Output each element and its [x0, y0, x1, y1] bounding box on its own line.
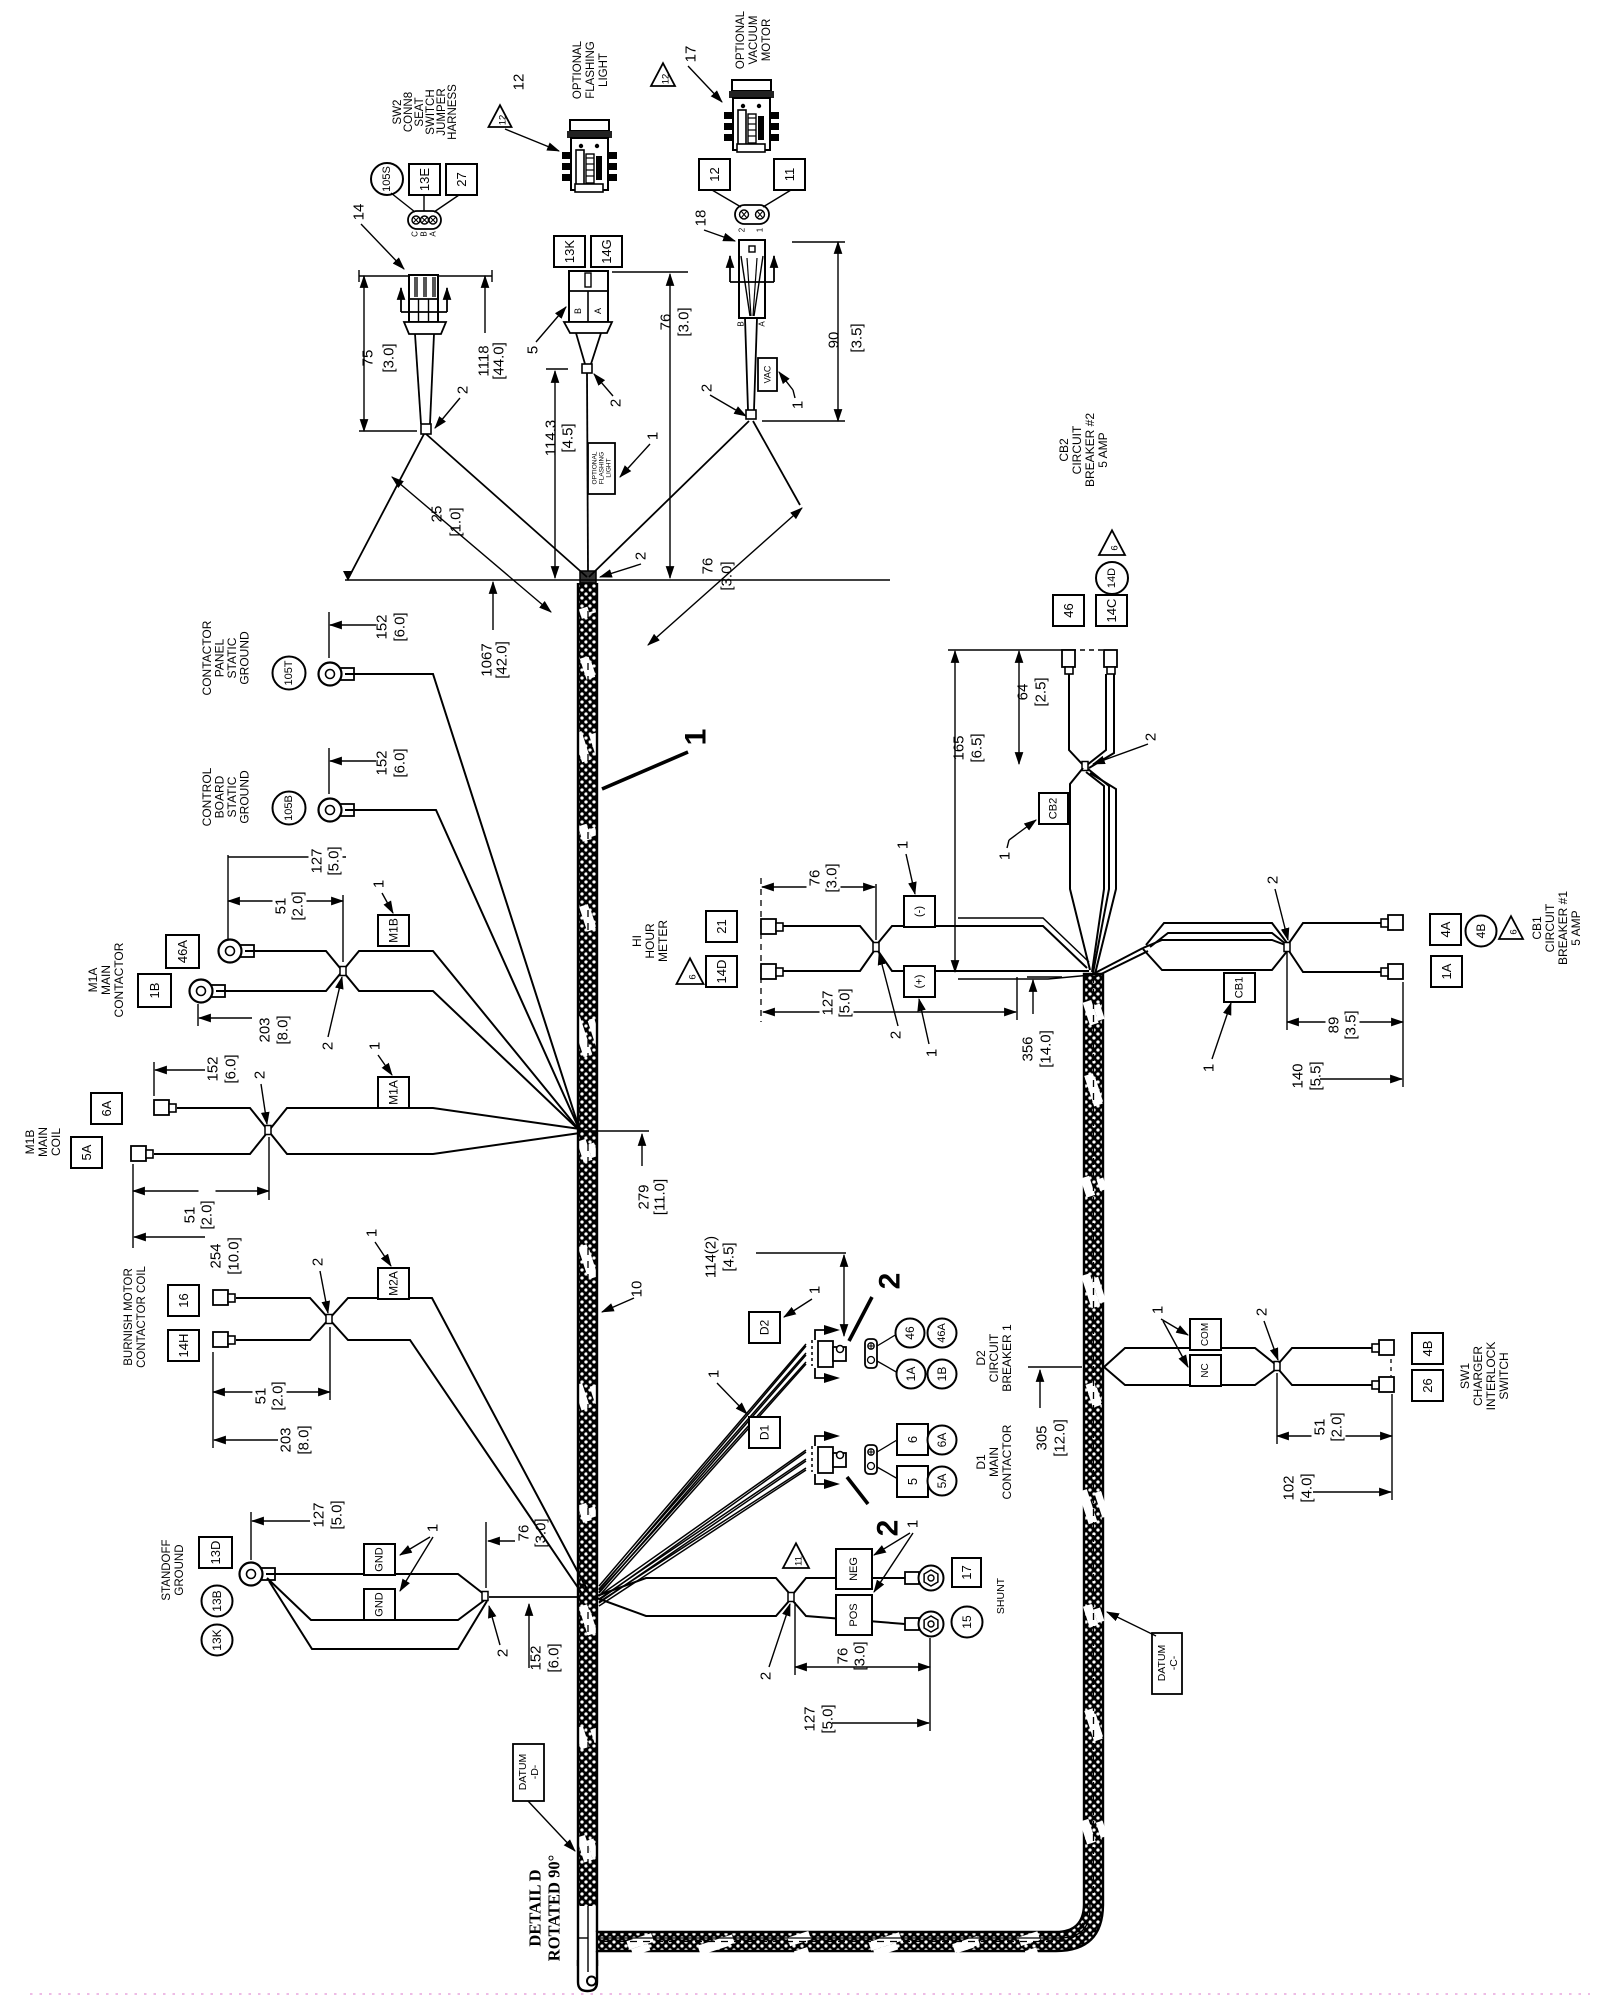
svg-text:2: 2	[495, 1649, 512, 1657]
svg-text:CIRCUIT: CIRCUIT	[1070, 425, 1084, 474]
svg-text:51: 51	[253, 1388, 270, 1405]
svg-text:6A: 6A	[935, 1433, 949, 1448]
svg-text:M1A: M1A	[86, 968, 100, 993]
svg-text:(-): (-)	[914, 906, 926, 917]
svg-text:[2.0]: [2.0]	[1329, 1412, 1346, 1441]
svg-text:165: 165	[951, 735, 968, 760]
svg-text:152: 152	[374, 614, 391, 639]
svg-text:COM: COM	[1200, 1323, 1211, 1346]
svg-text:[3.0]: [3.0]	[676, 307, 693, 336]
svg-text:SHUNT: SHUNT	[995, 1577, 1007, 1614]
svg-text:76: 76	[516, 1525, 533, 1542]
svg-text:6A: 6A	[99, 1100, 114, 1116]
svg-text:51: 51	[182, 1207, 199, 1224]
svg-text:1B: 1B	[147, 983, 162, 999]
svg-text:4B: 4B	[1474, 924, 1488, 939]
svg-text:[3.0]: [3.0]	[824, 863, 841, 892]
svg-text:CIRCUIT: CIRCUIT	[1543, 903, 1557, 952]
svg-text:BURNISH MOTOR: BURNISH MOTOR	[123, 1268, 135, 1366]
svg-text:114(2): 114(2)	[703, 1236, 720, 1278]
svg-text:GND: GND	[374, 1592, 386, 1617]
svg-text:127: 127	[820, 990, 837, 1015]
svg-text:89: 89	[1326, 1017, 1343, 1034]
svg-text:LIGHT: LIGHT	[606, 458, 613, 477]
svg-text:114.3: 114.3	[543, 420, 560, 456]
svg-text:HARNESS: HARNESS	[447, 84, 459, 140]
svg-text:2: 2	[252, 1071, 269, 1079]
svg-text:105B: 105B	[283, 795, 295, 821]
svg-text:OPTIONAL: OPTIONAL	[735, 10, 747, 69]
svg-text:[12.0]: [12.0]	[1052, 1419, 1069, 1457]
svg-text:SW1: SW1	[1458, 1363, 1472, 1389]
svg-text:11: 11	[794, 1556, 805, 1566]
svg-text:MAIN: MAIN	[99, 965, 113, 995]
svg-text:2: 2	[872, 1520, 905, 1537]
svg-text:1: 1	[1150, 1306, 1167, 1314]
svg-text:[8.0]: [8.0]	[275, 1015, 292, 1044]
svg-text:1A: 1A	[904, 1367, 918, 1382]
svg-text:ROTATED 90°: ROTATED 90°	[545, 1855, 564, 1961]
svg-text:102: 102	[1281, 1475, 1298, 1500]
svg-text:5: 5	[905, 1478, 920, 1485]
svg-text:2: 2	[633, 552, 650, 560]
svg-text:CONTACTOR: CONTACTOR	[1000, 1424, 1014, 1499]
svg-text:1: 1	[425, 1524, 442, 1532]
svg-text:18: 18	[693, 210, 710, 227]
svg-text:BREAKER #2: BREAKER #2	[1083, 413, 1097, 487]
svg-text:[2.0]: [2.0]	[199, 1200, 216, 1229]
svg-text:14D: 14D	[1106, 568, 1118, 588]
svg-text:2: 2	[699, 384, 716, 392]
svg-text:11: 11	[782, 168, 797, 182]
svg-text:25: 25	[429, 506, 446, 523]
svg-text:B: B	[420, 231, 429, 236]
svg-text:13E: 13E	[417, 168, 432, 191]
svg-text:-D-: -D-	[529, 1764, 541, 1779]
svg-text:1: 1	[790, 401, 807, 409]
svg-text:26: 26	[1420, 1378, 1435, 1392]
svg-text:-C-: -C-	[1168, 1655, 1180, 1670]
svg-text:GND: GND	[374, 1547, 386, 1572]
svg-text:12: 12	[498, 115, 509, 126]
svg-text:M2A: M2A	[387, 1271, 401, 1296]
svg-text:12: 12	[707, 167, 722, 181]
svg-text:2: 2	[1143, 733, 1160, 741]
svg-text:[11.0]: [11.0]	[652, 1179, 669, 1215]
svg-text:356: 356	[1020, 1036, 1037, 1061]
svg-text:75: 75	[360, 350, 377, 367]
svg-text:D1: D1	[974, 1454, 988, 1470]
svg-text:13D: 13D	[208, 1541, 223, 1565]
svg-text:21: 21	[714, 919, 729, 933]
svg-text:[3.0]: [3.0]	[533, 1518, 550, 1547]
svg-text:1: 1	[645, 432, 662, 440]
svg-text:METER: METER	[656, 920, 670, 962]
svg-text:[44.0]: [44.0]	[491, 342, 508, 380]
svg-text:OPTIONAL: OPTIONAL	[572, 40, 584, 99]
svg-text:[5.0]: [5.0]	[329, 1500, 346, 1529]
svg-text:CB1: CB1	[1530, 916, 1544, 940]
svg-text:5A: 5A	[79, 1144, 94, 1160]
svg-text:NC: NC	[1200, 1363, 1211, 1377]
svg-text:[6.0]: [6.0]	[392, 748, 409, 777]
svg-text:27: 27	[454, 172, 469, 186]
svg-text:STANDOFF: STANDOFF	[161, 1539, 173, 1600]
svg-text:203: 203	[278, 1427, 295, 1452]
svg-text:14: 14	[351, 204, 368, 221]
svg-text:HI: HI	[630, 935, 644, 947]
svg-text:A: A	[429, 231, 438, 237]
svg-text:A: A	[593, 308, 603, 314]
svg-text:SWITCH: SWITCH	[1497, 1352, 1511, 1399]
svg-text:12: 12	[661, 74, 672, 85]
svg-text:1: 1	[924, 1049, 941, 1057]
svg-text:2: 2	[455, 386, 472, 394]
svg-text:17: 17	[683, 46, 700, 63]
svg-text:[3.0]: [3.0]	[852, 1641, 869, 1670]
svg-text:6: 6	[905, 1436, 920, 1443]
svg-text:NEG: NEG	[848, 1557, 860, 1581]
svg-text:CONTACTOR: CONTACTOR	[112, 942, 126, 1017]
svg-text:CONTACTOR COIL: CONTACTOR COIL	[136, 1265, 148, 1367]
svg-text:[5.0]: [5.0]	[326, 846, 343, 875]
svg-text:90: 90	[826, 332, 843, 349]
svg-text:FLASHING: FLASHING	[585, 41, 597, 99]
svg-text:76: 76	[700, 558, 717, 575]
svg-text:CHARGER: CHARGER	[1471, 1346, 1485, 1406]
svg-text:[4.0]: [4.0]	[1299, 1473, 1316, 1502]
svg-text:1: 1	[364, 1229, 381, 1237]
svg-text:46: 46	[1061, 603, 1076, 617]
svg-text:127: 127	[311, 1502, 328, 1527]
svg-text:14G: 14G	[599, 239, 614, 264]
svg-text:152: 152	[528, 1645, 545, 1670]
svg-text:[3.5]: [3.5]	[1343, 1010, 1360, 1039]
svg-text:51: 51	[273, 898, 290, 915]
svg-text:LIGHT: LIGHT	[598, 53, 610, 87]
svg-text:5: 5	[525, 346, 542, 354]
svg-text:127: 127	[309, 848, 326, 873]
svg-text:[5.0]: [5.0]	[820, 1704, 837, 1733]
svg-text:[5.0]: [5.0]	[837, 988, 854, 1017]
svg-text:1B: 1B	[935, 1367, 949, 1382]
svg-text:2: 2	[310, 1258, 327, 1266]
svg-text:1: 1	[756, 227, 765, 232]
svg-text:MAIN: MAIN	[987, 1447, 1001, 1477]
svg-text:10: 10	[629, 1281, 646, 1298]
svg-text:C: C	[411, 231, 420, 237]
svg-text:B: B	[573, 308, 583, 314]
svg-text:2: 2	[738, 227, 747, 232]
svg-text:1: 1	[807, 1286, 824, 1294]
svg-text:[6.5]: [6.5]	[969, 733, 986, 762]
svg-text:D1: D1	[758, 1425, 772, 1441]
svg-text:46A: 46A	[936, 1323, 948, 1343]
svg-text:2: 2	[758, 1672, 775, 1680]
svg-text:CB1: CB1	[1234, 977, 1246, 998]
svg-text:M1B: M1B	[23, 1130, 37, 1155]
svg-text:1: 1	[680, 729, 713, 746]
svg-text:152: 152	[374, 750, 391, 775]
svg-text:13K: 13K	[562, 240, 577, 263]
svg-text:105T: 105T	[283, 660, 295, 685]
svg-text:[6.0]: [6.0]	[546, 1643, 563, 1672]
svg-text:A: A	[758, 321, 767, 327]
svg-text:14H: 14H	[176, 1334, 191, 1358]
svg-text:BREAKER 1: BREAKER 1	[1000, 1324, 1014, 1392]
svg-text:127: 127	[802, 1706, 819, 1731]
svg-text:DATUM: DATUM	[1156, 1645, 1168, 1682]
svg-text:1: 1	[997, 852, 1014, 860]
svg-text:GROUND: GROUND	[174, 1544, 186, 1595]
svg-text:D2: D2	[758, 1320, 772, 1336]
svg-text:COIL: COIL	[49, 1128, 63, 1156]
svg-text:64: 64	[1015, 684, 1032, 701]
svg-text:2: 2	[320, 1042, 337, 1050]
svg-text:INTERLOCK: INTERLOCK	[1484, 1342, 1498, 1411]
svg-text:76: 76	[807, 870, 824, 887]
svg-text:CB2: CB2	[1057, 438, 1071, 462]
svg-text:76: 76	[658, 314, 675, 331]
svg-text:105S: 105S	[381, 166, 393, 192]
svg-text:51: 51	[1312, 1419, 1329, 1436]
svg-text:14C: 14C	[1104, 599, 1119, 623]
svg-text:[6.0]: [6.0]	[223, 1054, 240, 1083]
svg-text:CB2: CB2	[1048, 798, 1060, 819]
svg-text:1A: 1A	[1439, 963, 1454, 979]
svg-text:[3.5]: [3.5]	[849, 323, 866, 352]
svg-text:305: 305	[1034, 1425, 1051, 1450]
svg-text:1: 1	[895, 841, 912, 849]
svg-text:5 AMP: 5 AMP	[1096, 432, 1110, 467]
svg-text:[4.5]: [4.5]	[560, 423, 577, 452]
svg-text:16: 16	[176, 1293, 191, 1307]
svg-text:[3.0]: [3.0]	[381, 343, 398, 372]
svg-text:1: 1	[371, 880, 388, 888]
svg-text:76: 76	[835, 1648, 852, 1665]
svg-text:DETAIL D: DETAIL D	[526, 1869, 545, 1946]
svg-text:VACUUM: VACUUM	[748, 16, 760, 65]
svg-text:2: 2	[888, 1031, 905, 1039]
svg-text:OPTIONAL: OPTIONAL	[592, 451, 599, 484]
svg-text:46A: 46A	[175, 940, 190, 963]
svg-text:DATUM: DATUM	[517, 1754, 529, 1791]
svg-text:4A: 4A	[1438, 921, 1453, 937]
svg-text:MOTOR: MOTOR	[761, 19, 773, 62]
svg-text:(+): (+)	[914, 975, 926, 989]
svg-text:1: 1	[706, 1370, 723, 1378]
svg-text:[14.0]: [14.0]	[1038, 1030, 1055, 1068]
svg-text:12: 12	[511, 74, 528, 91]
svg-text:15: 15	[960, 1615, 974, 1629]
svg-text:B: B	[737, 321, 746, 326]
svg-text:5A: 5A	[935, 1474, 949, 1489]
svg-text:M1B: M1B	[387, 918, 401, 943]
svg-text:MAIN: MAIN	[36, 1127, 50, 1157]
svg-text:14D: 14D	[714, 960, 729, 984]
svg-text:1: 1	[1201, 1064, 1218, 1072]
svg-text:279: 279	[636, 1184, 653, 1209]
svg-text:6: 6	[688, 974, 699, 979]
svg-text:HOUR: HOUR	[643, 923, 657, 959]
svg-text:152: 152	[205, 1056, 222, 1081]
svg-text:2: 2	[608, 399, 625, 407]
svg-text:[1.0]: [1.0]	[448, 507, 465, 536]
svg-text:POS: POS	[848, 1603, 860, 1626]
svg-text:254: 254	[208, 1243, 225, 1268]
svg-text:GROUND: GROUND	[238, 770, 252, 824]
svg-text:5 AMP: 5 AMP	[1569, 910, 1583, 945]
svg-text:2: 2	[874, 1273, 907, 1290]
svg-text:BREAKER #1: BREAKER #1	[1556, 891, 1570, 965]
svg-text:[10.0]: [10.0]	[226, 1237, 243, 1275]
svg-text:[8.0]: [8.0]	[296, 1425, 313, 1454]
svg-text:13B: 13B	[210, 1590, 224, 1611]
svg-text:[6.0]: [6.0]	[392, 612, 409, 641]
svg-text:M1A: M1A	[387, 1080, 401, 1105]
svg-text:[42.0]: [42.0]	[494, 641, 511, 679]
svg-text:GROUND: GROUND	[238, 631, 252, 685]
svg-text:2: 2	[1254, 1308, 1271, 1316]
svg-text:6: 6	[1110, 545, 1121, 550]
svg-text:203: 203	[257, 1017, 274, 1042]
svg-text:1: 1	[367, 1042, 384, 1050]
svg-text:[2.0]: [2.0]	[290, 891, 307, 920]
svg-text:[3.0]: [3.0]	[719, 561, 736, 590]
svg-text:46: 46	[903, 1326, 917, 1340]
svg-text:FLASHING: FLASHING	[599, 452, 606, 485]
svg-text:VAC: VAC	[763, 365, 773, 383]
svg-text:4B: 4B	[1420, 1341, 1435, 1357]
svg-text:D2: D2	[974, 1350, 988, 1366]
svg-text:[5.5]: [5.5]	[1308, 1061, 1325, 1090]
svg-text:[2.0]: [2.0]	[270, 1381, 287, 1410]
svg-text:[2.5]: [2.5]	[1033, 677, 1050, 706]
svg-text:6: 6	[1509, 929, 1520, 934]
svg-text:[4.5]: [4.5]	[721, 1242, 738, 1271]
svg-text:1: 1	[905, 1520, 922, 1528]
svg-text:140: 140	[1290, 1063, 1307, 1088]
svg-text:2: 2	[1265, 876, 1282, 884]
svg-text:13K: 13K	[210, 1629, 224, 1650]
svg-text:CIRCUIT: CIRCUIT	[987, 1333, 1001, 1382]
svg-text:17: 17	[959, 1565, 974, 1579]
